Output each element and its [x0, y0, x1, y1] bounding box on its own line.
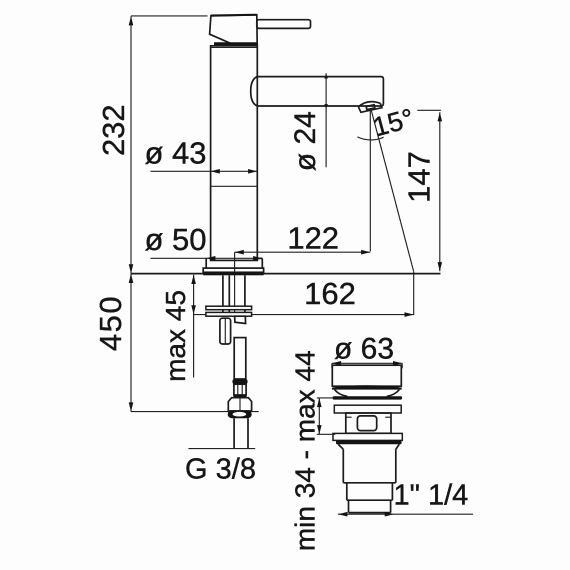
collar bottom band	[234, 395, 247, 398]
drain chamfer right	[396, 444, 400, 449]
angle arc	[357, 137, 383, 140]
spout	[257, 77, 383, 106]
drain tail lower	[349, 500, 391, 512]
hose ferrule	[232, 379, 247, 385]
drain cap bottom bold arc	[332, 385, 402, 389]
15 degree slanted line	[371, 110, 414, 272]
connector line to 162	[413, 272, 415, 315]
dimension 147 extension top	[417, 109, 441, 111]
counter mounting line	[131, 273, 441, 275]
body joint line	[211, 185, 258, 187]
washer bar	[206, 306, 252, 310]
clamp tab	[235, 316, 246, 323]
base collar	[206, 258, 262, 268]
nut bottom band	[228, 410, 252, 418]
dimension 147 line	[439, 112, 441, 271]
drain funnel right	[387, 390, 400, 397]
dimension 232 extension line top	[131, 15, 208, 17]
flexible hose	[234, 338, 246, 379]
drain chamfer left	[338, 444, 343, 449]
aerator face	[366, 105, 375, 110]
faucet axis extension	[234, 252, 236, 314]
G38 leader line	[188, 448, 255, 450]
svg-text:ø 50: ø 50	[144, 222, 206, 257]
nut tail pipe	[234, 418, 248, 448]
cap bottom bold edge	[214, 42, 257, 45]
drain lower bold bar	[336, 440, 402, 444]
drain lower flange	[333, 433, 402, 440]
dimension 450 extension line bottom	[131, 411, 259, 413]
handle lever	[257, 20, 311, 29]
dimension o24 extension line	[325, 73, 327, 167]
svg-text:122: 122	[287, 220, 339, 255]
aerator rim	[358, 103, 382, 112]
spout left arc	[251, 77, 258, 106]
svg-text:ø 24: ø 24	[289, 111, 322, 171]
svg-text:ø 43: ø 43	[144, 135, 206, 170]
aerator dome	[358, 102, 380, 107]
dimension o50 line	[151, 257, 263, 259]
drain tail upper	[347, 483, 393, 500]
dimension 232 line	[130, 16, 132, 273]
dimension o43 line	[151, 170, 258, 172]
svg-text:ø 63: ø 63	[334, 332, 394, 365]
drain top seal bold bar	[333, 396, 403, 399]
svg-text:G 3/8: G 3/8	[185, 454, 256, 486]
drain square hole	[357, 416, 376, 431]
svg-text:min 34 - max 44: min 34 - max 44	[290, 350, 321, 551]
dimension 122 line	[235, 251, 371, 253]
drain funnel left	[335, 390, 348, 397]
body ring line	[211, 46, 258, 48]
svg-text:max 45: max 45	[160, 290, 191, 382]
svg-text:162: 162	[304, 276, 356, 311]
drain upper flange	[334, 405, 401, 413]
hose nut	[228, 398, 251, 411]
svg-text:450: 450	[93, 295, 128, 351]
dimension 1-1/4 line	[338, 513, 473, 515]
drain cap	[332, 365, 401, 386]
dimension o63 line	[332, 362, 402, 364]
faucet handle cap	[210, 15, 258, 45]
mounting nut bar	[206, 312, 252, 316]
spout outlet axis line	[369, 109, 371, 252]
drain neck	[346, 413, 391, 433]
dimension 162 line	[194, 314, 414, 316]
dimension max45 line	[193, 275, 195, 378]
cap top bold edge	[211, 14, 257, 17]
faucet body	[211, 46, 258, 261]
svg-text:232: 232	[96, 104, 131, 156]
dimension min34max44 line	[318, 398, 320, 434]
base flange	[203, 268, 263, 272]
base flange bold bottom	[203, 272, 263, 275]
shank tubes	[223, 275, 245, 306]
drain body	[343, 449, 396, 483]
svg-text:1" 1/4: 1" 1/4	[394, 480, 469, 512]
dimension min34max44 tick bottom	[317, 433, 336, 435]
dimension min34max44 tick top	[317, 397, 334, 399]
hose collar	[234, 384, 246, 395]
dimension 450 line	[130, 274, 132, 412]
svg-text:147: 147	[402, 151, 437, 203]
fixing rod	[220, 318, 231, 344]
